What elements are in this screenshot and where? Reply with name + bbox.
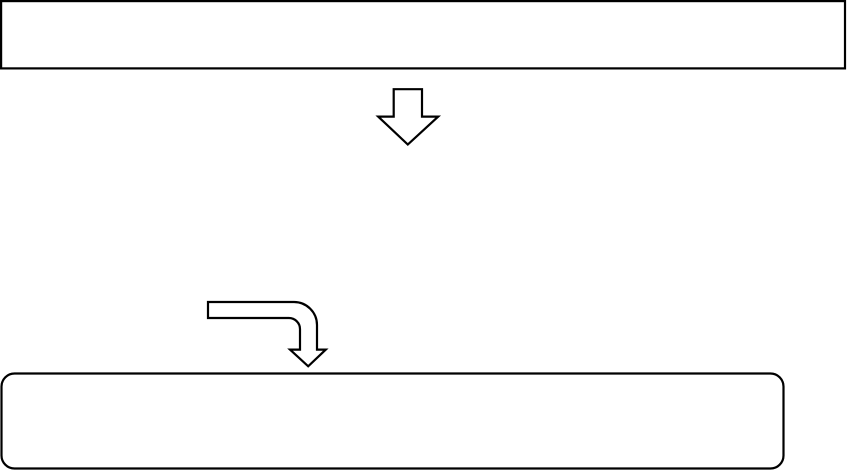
bottom rounded box: [2, 374, 784, 469]
block down arrow: [378, 89, 438, 144]
bent arrow: [208, 302, 326, 366]
top process box: [1, 1, 845, 68]
